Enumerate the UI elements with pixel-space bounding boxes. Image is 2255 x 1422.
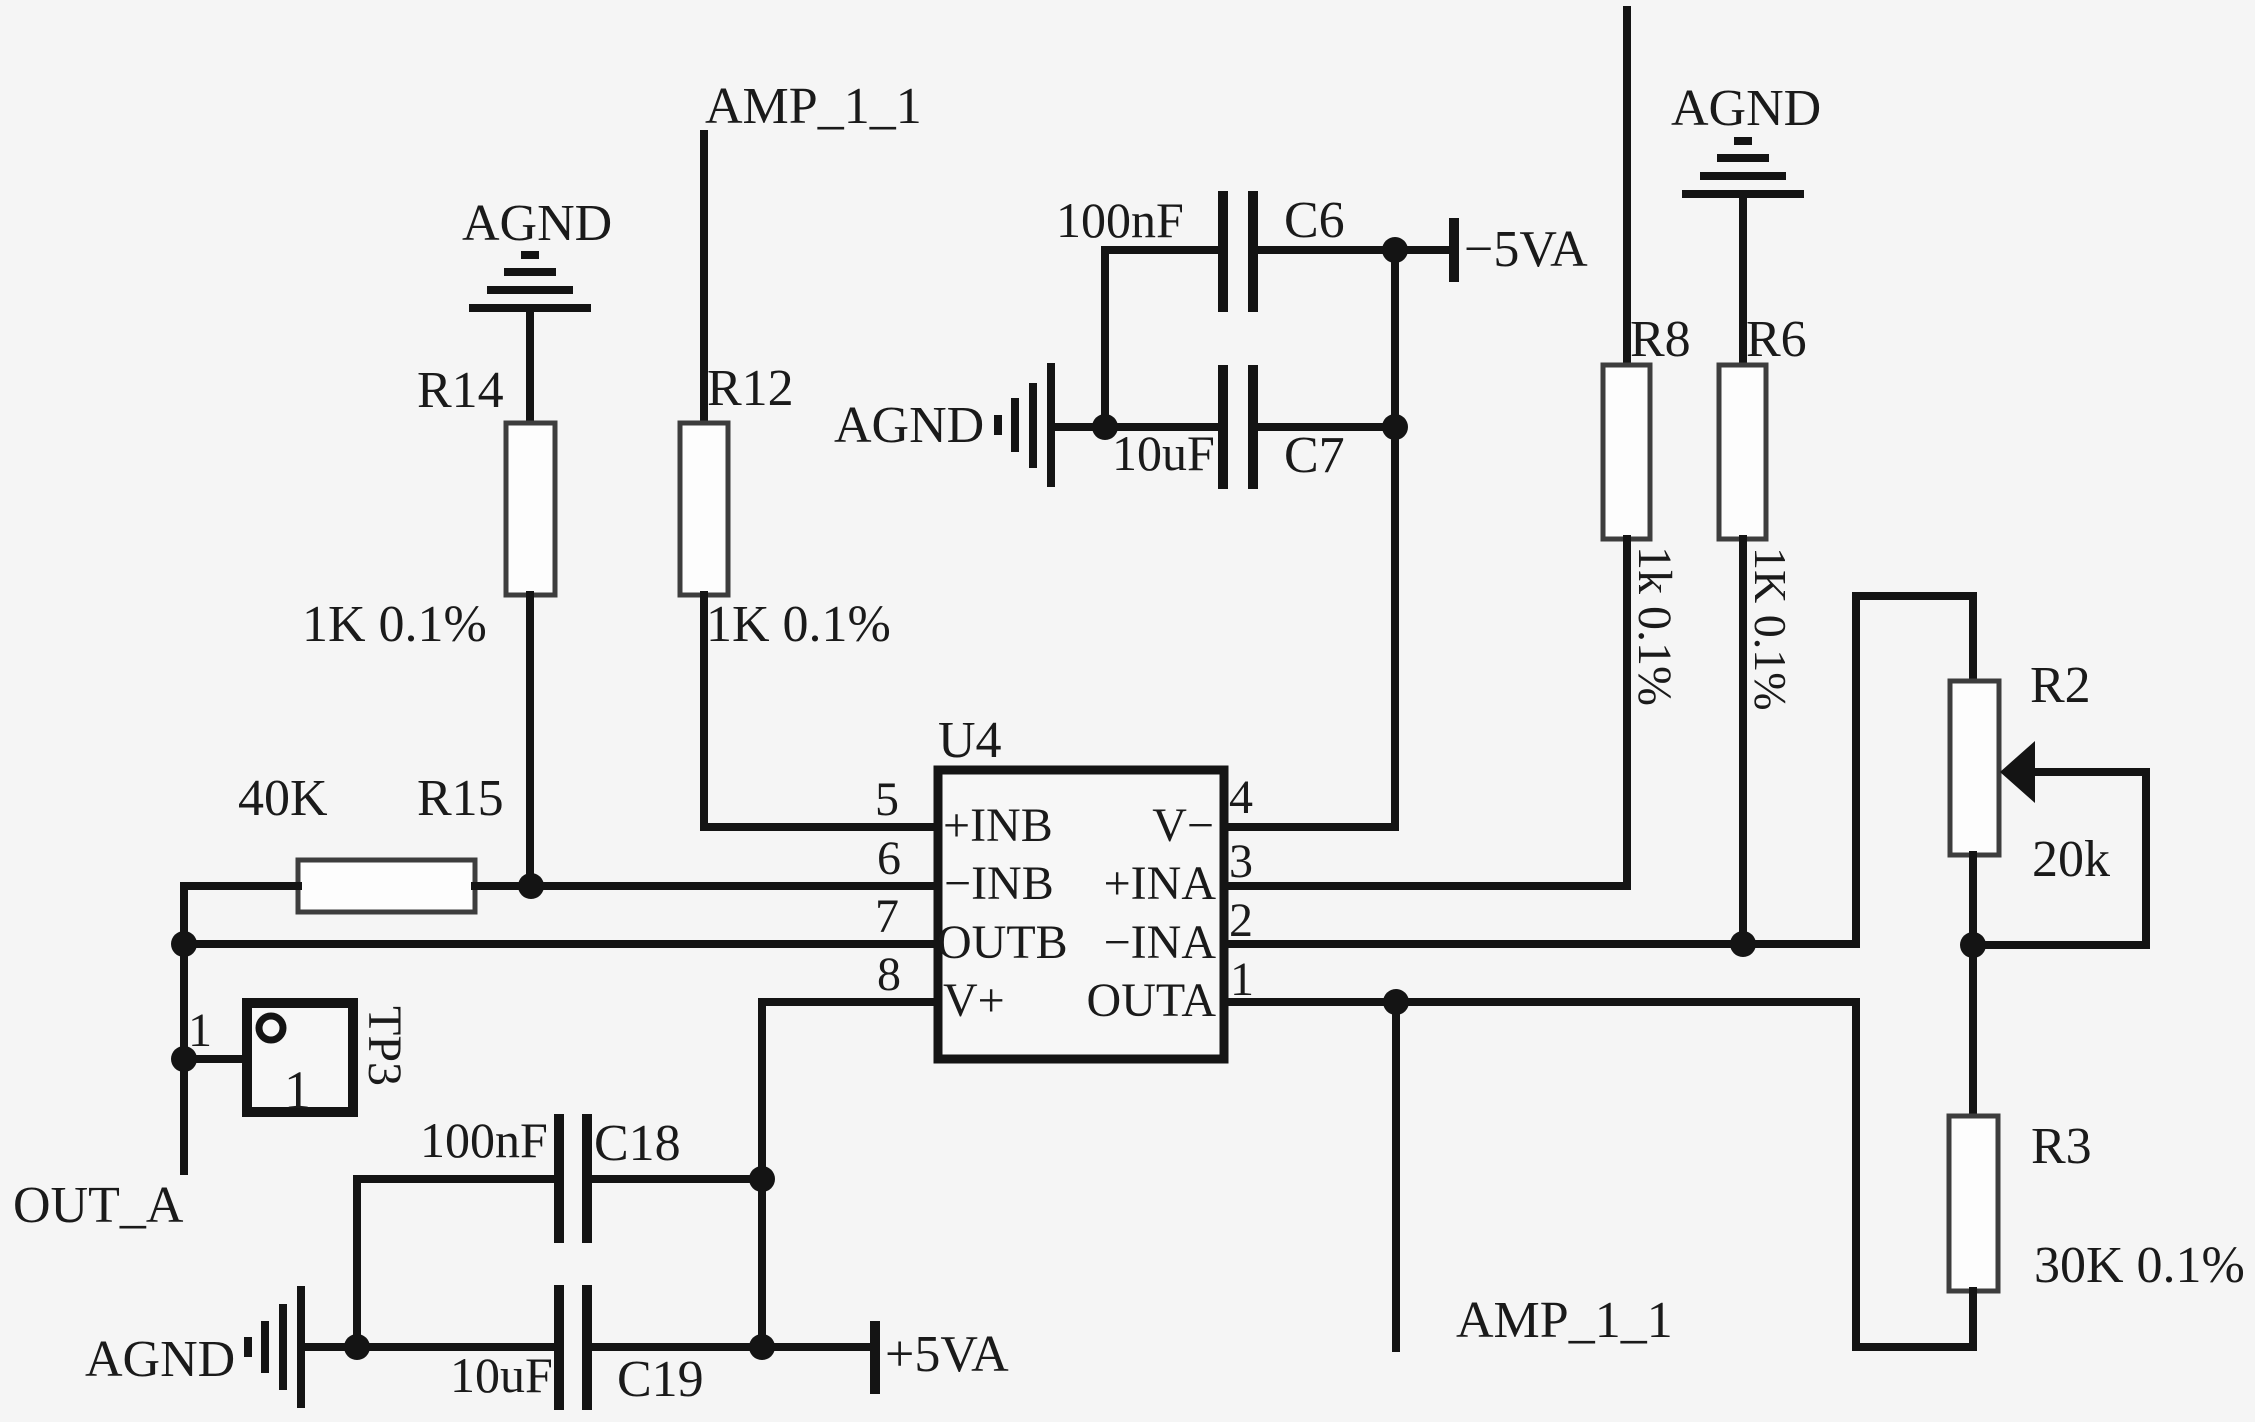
svg-text:20k: 20k bbox=[2032, 831, 2110, 888]
resistor R15 (40K) bbox=[238, 770, 504, 912]
svg-text:R15: R15 bbox=[417, 770, 504, 827]
wiper arrow bbox=[2000, 741, 2035, 803]
wire node down to R3 bbox=[1969, 945, 1977, 1116]
node C18 / V+ bbox=[749, 1166, 775, 1192]
node TP3 tap bbox=[171, 1046, 197, 1072]
wire R12 top vertical from AMP_1_1 bbox=[700, 134, 708, 423]
ground AGND (bottom left, sideways) bbox=[85, 1286, 301, 1408]
resistor R6 bbox=[1719, 311, 1807, 711]
svg-text:AMP_1_1: AMP_1_1 bbox=[1456, 1292, 1673, 1349]
capacitor C7 bbox=[1112, 365, 1345, 489]
svg-text:R14: R14 bbox=[417, 362, 504, 419]
svg-text:1k 0.1%: 1k 0.1% bbox=[1628, 546, 1681, 706]
node C19 left / C18 branch bbox=[344, 1334, 370, 1360]
TP3 pad circle bbox=[259, 1016, 283, 1040]
node C6-left / C7-left junction bbox=[1092, 414, 1118, 440]
svg-text:−INA: −INA bbox=[1104, 916, 1217, 969]
svg-text:OUTB: OUTB bbox=[937, 916, 1068, 969]
op-amp U4 bbox=[875, 712, 1254, 1059]
svg-text:R2: R2 bbox=[2030, 657, 2091, 714]
svg-text:5: 5 bbox=[875, 773, 899, 826]
ground AGND (top right) bbox=[1671, 80, 1821, 194]
ground AGND (top left) bbox=[462, 195, 612, 308]
svg-text:V−: V− bbox=[1152, 799, 1214, 852]
capacitor C18 bbox=[420, 1112, 681, 1243]
wire R14 bottom to -INB rail bbox=[526, 595, 534, 884]
wire R15 right to U4 pin 6 bbox=[475, 882, 936, 890]
node OUTB / left rail bbox=[171, 931, 197, 957]
ground AGND (middle, sideways) bbox=[834, 363, 1051, 487]
wire AGND to R6 bbox=[1739, 196, 1747, 365]
wire OUTB rail (pin 7) bbox=[184, 940, 936, 948]
svg-text:−INB: −INB bbox=[944, 857, 1054, 910]
svg-text:40K: 40K bbox=[238, 770, 328, 827]
node C6/-5VA junction bbox=[1382, 237, 1408, 263]
node R14 / -INB junction bbox=[518, 873, 544, 899]
svg-text:6: 6 bbox=[877, 832, 901, 885]
power +5VA terminal bbox=[875, 1321, 1009, 1394]
svg-text:U4: U4 bbox=[938, 712, 1002, 769]
wire R12 bottom to U4 pin 5 bbox=[704, 595, 936, 827]
testpoint TP3 bbox=[247, 1003, 411, 1120]
resistor R14 bbox=[302, 362, 555, 653]
node R6 / -INA junction bbox=[1730, 931, 1756, 957]
svg-text:AGND: AGND bbox=[462, 195, 612, 252]
svg-text:1K 0.1%: 1K 0.1% bbox=[1745, 547, 1796, 711]
wire C18 right to V+ vertical bbox=[592, 1175, 762, 1183]
svg-text:10uF: 10uF bbox=[450, 1347, 553, 1403]
net label AMP_1_1 (top) bbox=[705, 78, 922, 135]
svg-text:C18: C18 bbox=[594, 1115, 681, 1172]
svg-text:C7: C7 bbox=[1284, 427, 1345, 484]
resistor R8 bbox=[1603, 311, 1691, 706]
wire AMP_1_1 (bottom) bbox=[1392, 1002, 1400, 1348]
wire R2 bottom to node bbox=[1969, 855, 1977, 945]
svg-text:R6: R6 bbox=[1746, 311, 1807, 368]
capacitor C19 bbox=[450, 1285, 704, 1410]
power -5VA terminal bbox=[1454, 218, 1588, 282]
svg-text:3: 3 bbox=[1229, 835, 1253, 888]
svg-text:+INA: +INA bbox=[1104, 857, 1217, 910]
wire AGND to C19 left bbox=[303, 1343, 554, 1351]
svg-text:AGND: AGND bbox=[1671, 80, 1821, 137]
svg-text:R8: R8 bbox=[1630, 311, 1691, 368]
wire tap to TP3 bbox=[184, 1055, 246, 1063]
svg-text:R3: R3 bbox=[2031, 1118, 2092, 1175]
wire AGND to C7 left node bbox=[1053, 423, 1218, 431]
node R2 bottom / wiper / R3 top / -INA tap bbox=[1960, 932, 1986, 958]
svg-text:+5VA: +5VA bbox=[885, 1326, 1009, 1383]
svg-text:1: 1 bbox=[284, 1060, 311, 1120]
svg-text:1: 1 bbox=[188, 1004, 212, 1057]
svg-text:7: 7 bbox=[875, 890, 899, 943]
svg-text:30K 0.1%: 30K 0.1% bbox=[2034, 1237, 2245, 1294]
svg-text:2: 2 bbox=[1229, 894, 1253, 947]
node C7/V- junction bbox=[1382, 414, 1408, 440]
svg-text:−5VA: −5VA bbox=[1464, 221, 1588, 278]
wire R15 left + left vertical rail bbox=[184, 886, 298, 1171]
svg-text:10uF: 10uF bbox=[1112, 425, 1215, 481]
svg-text:AGND: AGND bbox=[85, 1331, 235, 1388]
svg-text:AMP_1_1: AMP_1_1 bbox=[705, 78, 922, 135]
svg-text:+INB: +INB bbox=[943, 799, 1053, 852]
capacitor C6 bbox=[1056, 191, 1345, 312]
svg-text:100nF: 100nF bbox=[420, 1112, 548, 1168]
wire AGND to R14 bbox=[526, 310, 534, 423]
wire V- vertical down to U4 pin 4 bbox=[1230, 250, 1395, 827]
svg-text:1K 0.1%: 1K 0.1% bbox=[706, 596, 891, 653]
potentiometer R2 bbox=[1950, 657, 2110, 888]
svg-text:8: 8 bbox=[877, 948, 901, 1001]
svg-text:R12: R12 bbox=[707, 360, 794, 417]
wire R3 bottom loop to OUTA bbox=[1230, 1002, 1973, 1347]
svg-text:C19: C19 bbox=[617, 1351, 704, 1408]
wire -INA rail (pin 2) to R2 loop bbox=[1230, 596, 1973, 944]
wire wiper loop bbox=[1986, 772, 2146, 945]
node OUTA / AMP_1_1 bbox=[1383, 989, 1409, 1015]
svg-text:AGND: AGND bbox=[834, 397, 984, 454]
wire C6 left to down-corner bbox=[1105, 250, 1218, 424]
wire C7 right to V- vertical bbox=[1258, 423, 1395, 431]
wire R8 bottom to U4 pin 3 bbox=[1230, 539, 1627, 886]
wire C6 right to -5VA node bbox=[1258, 246, 1450, 254]
wire U4 pin 8 V+ down to C18/C19 bbox=[762, 1002, 936, 1347]
svg-text:4: 4 bbox=[1229, 771, 1253, 824]
wire C18 left, down to C19 rail bbox=[357, 1179, 554, 1347]
wire R8 top (off page) bbox=[1623, 10, 1631, 365]
svg-text:OUT_A: OUT_A bbox=[13, 1177, 184, 1234]
node C19 / V+ vertical bbox=[749, 1334, 775, 1360]
svg-text:V+: V+ bbox=[943, 974, 1005, 1027]
wire C19 right to +5VA bbox=[592, 1343, 871, 1351]
svg-text:100nF: 100nF bbox=[1056, 192, 1184, 248]
svg-text:C6: C6 bbox=[1284, 192, 1345, 249]
wire R6 bottom to -INA rail bbox=[1739, 539, 1747, 940]
svg-text:1K 0.1%: 1K 0.1% bbox=[302, 596, 487, 653]
resistor R3 bbox=[1949, 1116, 2245, 1294]
svg-text:TP3: TP3 bbox=[358, 1006, 411, 1086]
resistor R12 bbox=[680, 360, 891, 653]
svg-text:OUTA: OUTA bbox=[1087, 974, 1217, 1027]
